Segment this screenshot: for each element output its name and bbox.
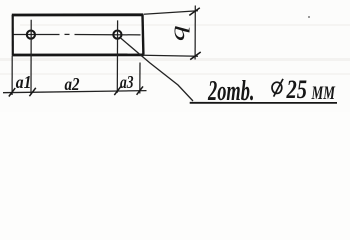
leader line from hole 2 to note (121, 38, 193, 101)
diameter symbol (272, 79, 283, 97)
hole 2 circle (113, 30, 121, 38)
top extension line to b dimension (144, 11, 199, 14)
note underline shelf (190, 102, 337, 104)
bottom dimension line (3, 91, 147, 93)
left edge extension line down (11, 56, 13, 96)
tick a2/a3 (114, 87, 120, 95)
bottom extension line to b dimension (144, 55, 199, 56)
svg-text:25: 25 (286, 75, 307, 104)
tick b top (189, 8, 200, 16)
svg-text:a3: a3 (120, 72, 134, 92)
plate outline rectangle (12, 15, 144, 56)
svg-text:ММ: ММ (311, 83, 336, 104)
tick a1 left (9, 88, 15, 96)
svg-text:2omb.: 2omb. (207, 76, 254, 107)
speck (308, 16, 310, 18)
hole 1 vertical centerline / extension line (30, 20, 32, 95)
tick a1/a2 (29, 88, 35, 96)
b dimension line (194, 6, 196, 60)
svg-text:b: b (170, 25, 193, 41)
svg-text:a2: a2 (65, 74, 80, 94)
tick a3 right (137, 86, 143, 94)
hole 2 vertical centerline / extension line (116, 20, 118, 92)
hole 1 circle (27, 30, 35, 38)
horizontal centerline (dash-dot) (14, 33, 141, 36)
tick b bottom (190, 52, 201, 60)
svg-text:a1: a1 (16, 72, 32, 92)
right a3 extension line down (139, 63, 141, 94)
